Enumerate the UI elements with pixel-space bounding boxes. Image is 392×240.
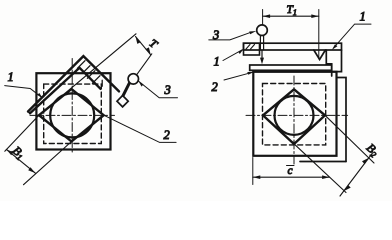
leader for label 3 (left) (139, 82, 178, 98)
shadow plate bottom edge (300, 161, 346, 163)
clamp bar hatching (between bracket right-leg edges) (77, 61, 102, 86)
arrowhead T1 left (263, 14, 271, 18)
arrowhead leader 1 left (238, 49, 243, 54)
svg-text:3: 3 (212, 28, 219, 42)
arrowhead leader 2 right (247, 72, 254, 75)
extension line E1 (294, 144, 346, 193)
svg-text:1: 1 (8, 70, 14, 84)
measured square diamond (right) (263, 89, 325, 144)
leader for label 2 (left) (105, 116, 177, 143)
shadow plate top/right edge (337, 78, 346, 162)
vertical centerline (right) (293, 76, 295, 164)
angle bracket inner edges (30, 68, 101, 114)
c extension line (252, 158, 254, 185)
arrowhead c right (322, 175, 330, 179)
vertical centerline (71, 59, 73, 155)
arrowhead leader 3 right (249, 31, 256, 34)
arrowhead T lower (145, 47, 150, 54)
long extension line L1 (edge of square extended) (5, 34, 136, 151)
indicator stem double line (260, 35, 263, 50)
leader for label 3 (right) (209, 33, 250, 40)
extension line E2 (325, 115, 374, 163)
extension line L2 through bottom corner (24, 142, 72, 185)
leader for label 1 (left) (5, 86, 42, 98)
dashed inner square (right) (263, 84, 326, 145)
dimension line T1 (263, 15, 319, 17)
horizontal centerline (right) (246, 114, 348, 116)
mount block hatching (246, 45, 255, 50)
stem arrowhead (260, 58, 264, 65)
indicator mount block (244, 43, 260, 55)
dimension line T (136, 37, 151, 55)
arrowhead T1 right (311, 14, 319, 18)
arrowhead B1 lower (28, 167, 35, 173)
circle (central bore, right) (275, 96, 314, 135)
indicator stem (left) (123, 82, 130, 96)
dial indicator circle (left) (128, 74, 138, 84)
dimension line c (253, 176, 330, 178)
arrowhead leader 1 top right (332, 44, 337, 50)
dial indicator circle (right) (257, 25, 268, 36)
horizontal centerline (30, 114, 115, 116)
upper bar (straightedge item 1) (244, 43, 342, 50)
V-notch (314, 50, 326, 60)
outer square (part body, right) (253, 72, 336, 156)
T1 left extension (262, 10, 264, 25)
corner bracket step (326, 50, 331, 76)
angle bracket outer edges (28, 56, 119, 111)
overbar on c (287, 165, 295, 167)
svg-text:1: 1 (360, 10, 366, 24)
arrowhead leader 1 (38, 93, 43, 98)
arrowhead B2 upper (362, 158, 369, 164)
T1 right extension (318, 10, 320, 60)
svg-text:3: 3 (164, 83, 171, 97)
arrowhead B1 upper (6, 149, 13, 155)
arrowhead leader 3 left (138, 81, 143, 87)
svg-text:2: 2 (212, 80, 218, 94)
indicator tip block (117, 96, 128, 107)
dimension line B1 (6, 149, 35, 173)
leader for label 1 (right-left) (223, 50, 242, 61)
measured square (diamond) (39, 89, 104, 142)
dimension line B2 (340, 153, 373, 196)
leader for label 1 (top right) (333, 24, 371, 48)
leader for label 2 (right) (224, 72, 253, 80)
circle (central bore) (50, 93, 94, 137)
corner bracket right arm (332, 50, 342, 72)
arrowhead c left (253, 175, 260, 179)
arrowhead T upper (136, 37, 141, 44)
svg-text:2: 2 (164, 128, 170, 142)
dashed inner square (44, 84, 102, 143)
arrowhead B2 lower (344, 185, 351, 191)
svg-text:1: 1 (214, 55, 220, 69)
bracket left end cap (28, 112, 30, 114)
indicator axis extension line (137, 54, 152, 75)
outer square (part body) (36, 73, 110, 149)
stem lower line and arrow (261, 50, 263, 59)
svg-text:c: c (288, 165, 293, 177)
lower bar (straightedge item 2) (250, 65, 332, 70)
